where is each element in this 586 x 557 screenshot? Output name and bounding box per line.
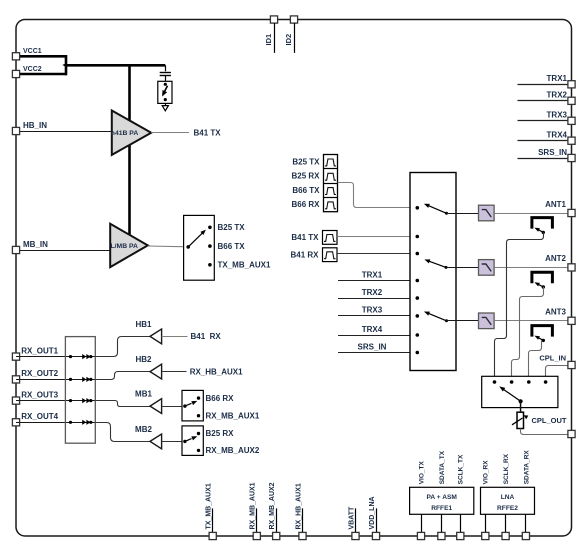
svg-text:SDATA_RX: SDATA_RX bbox=[523, 450, 530, 485]
switch U3 throw 1 bbox=[493, 380, 497, 384]
svg-text:B25 TX: B25 TX bbox=[292, 157, 320, 166]
svg-text:B25 RX: B25 RX bbox=[206, 429, 235, 438]
wire LNA MB1 output bbox=[162, 406, 185, 408]
switch U2 arm ANT2 bbox=[445, 266, 448, 269]
switch U3 throw 4 bbox=[544, 380, 548, 384]
pad ANT1 bbox=[568, 209, 575, 216]
wire VCC join vertical bbox=[65, 55, 68, 75]
switch SW3 throw RX_MB_AUX2 bbox=[197, 449, 200, 452]
wire attenuator to CPL_OUT bbox=[521, 429, 569, 435]
switch U3 throw 3 bbox=[527, 380, 531, 384]
coupler CP3 coupled arrow bbox=[542, 339, 545, 342]
wire PA2 output bbox=[148, 245, 188, 248]
svg-text:VIO_RX: VIO_RX bbox=[483, 460, 490, 485]
pad MB_IN bbox=[12, 246, 19, 253]
wire ID1 stub bbox=[274, 23, 276, 53]
svg-text:ANT1: ANT1 bbox=[545, 200, 566, 209]
svg-text:RX_MB_AUX2: RX_MB_AUX2 bbox=[206, 446, 260, 455]
wire TRX2 stub bbox=[518, 100, 569, 102]
svg-text:RX_MB_AUX2: RX_MB_AUX2 bbox=[269, 482, 276, 529]
wire SDATA_TX pin bbox=[441, 514, 443, 532]
matching elements RX_OUT3 bbox=[69, 399, 72, 402]
svg-text:SDATA_TX: SDATA_TX bbox=[439, 450, 446, 484]
svg-text:VCC2: VCC2 bbox=[23, 66, 42, 73]
wire RX_HB_AUX1 stub bbox=[302, 508, 304, 532]
wire RX_OUT3 bbox=[16, 400, 95, 402]
pad HB_IN bbox=[12, 127, 19, 134]
wire TRX2 to antenna switch bbox=[338, 298, 417, 300]
switch SW1 pole bbox=[186, 245, 190, 249]
wire TRX4 to antenna switch bbox=[338, 335, 417, 337]
switch SW2 MB1 out box bbox=[182, 390, 203, 421]
capacitor C1 bbox=[160, 72, 171, 74]
pad VIO_RX bbox=[482, 532, 489, 539]
svg-text:B66 RX: B66 RX bbox=[291, 200, 320, 209]
wire LNA HB1 output bbox=[162, 336, 188, 338]
switch U2 throw 7 bbox=[416, 333, 420, 337]
svg-text:B25 TX: B25 TX bbox=[218, 223, 246, 232]
svg-text:TRX4: TRX4 bbox=[362, 325, 383, 334]
filter B41 RX bbox=[323, 248, 338, 262]
pad RX_OUT4 bbox=[12, 419, 19, 426]
low-pass filter FL3 bbox=[479, 313, 495, 329]
svg-text:TRX4: TRX4 bbox=[547, 131, 568, 140]
wire VCC between PAs bbox=[128, 144, 131, 236]
switch U2 throw 3 bbox=[416, 252, 420, 256]
pad TRX4 bbox=[568, 137, 575, 144]
svg-text:ID1: ID1 bbox=[264, 34, 273, 46]
switch U2 throw 6 bbox=[416, 314, 420, 318]
filter B41 TX bbox=[323, 231, 338, 245]
switch SW3 MB2 out box bbox=[182, 426, 203, 456]
wire LNA HB2 output bbox=[162, 371, 187, 373]
pad RX_OUT3 bbox=[12, 397, 19, 404]
svg-text:SCLK_TX: SCLK_TX bbox=[458, 454, 465, 484]
pad SCLK_RX bbox=[502, 532, 509, 539]
svg-text:TRX1: TRX1 bbox=[547, 74, 568, 83]
svg-text:RX_MB_AUX1: RX_MB_AUX1 bbox=[206, 411, 260, 420]
svg-text:TX_MB_AUX1: TX_MB_AUX1 bbox=[206, 483, 213, 529]
wire TRX3 stub bbox=[518, 120, 569, 122]
wire coupler CP1 to coupler switch bbox=[495, 232, 544, 382]
wire RX_OUT1 bbox=[16, 356, 95, 358]
wire VDD_LNA stub bbox=[376, 508, 378, 532]
arrow on VCC bus bbox=[62, 63, 67, 67]
attenuator R1 bbox=[517, 412, 524, 428]
pad RX_OUT2 bbox=[12, 376, 19, 383]
switch U3 pole and arm bbox=[519, 399, 523, 403]
switch U2 throw 5 bbox=[416, 296, 420, 300]
pad ANT3 bbox=[568, 317, 575, 324]
svg-text:RX_MB_AUX1: RX_MB_AUX1 bbox=[250, 482, 257, 529]
pad TRX1 bbox=[568, 81, 575, 88]
switch SW1 throw B25 TX bbox=[208, 226, 212, 230]
wire ID2 stub bbox=[294, 23, 296, 53]
pad VCC2 bbox=[12, 70, 19, 77]
pad ID1 bbox=[270, 16, 277, 23]
coupler CP1 main line bbox=[532, 218, 553, 229]
low-pass filter FL2 bbox=[479, 260, 495, 276]
svg-text:B25 RX: B25 RX bbox=[291, 172, 320, 181]
svg-text:RFFE2: RFFE2 bbox=[497, 505, 518, 512]
op-amp LNA HB2 bbox=[150, 364, 162, 379]
op-amp PA1 n41B PA bbox=[112, 111, 151, 155]
svg-text:HB_IN: HB_IN bbox=[23, 121, 47, 130]
switch U2 throw 4 bbox=[416, 279, 420, 283]
svg-text:RX_OUT1: RX_OUT1 bbox=[21, 346, 58, 355]
switch U2 antenna switch box bbox=[410, 173, 456, 371]
pad TRX3 bbox=[568, 117, 575, 124]
wire RX_OUT2 bbox=[16, 379, 95, 381]
svg-text:ANT2: ANT2 bbox=[545, 254, 566, 263]
wire MB_IN bbox=[16, 250, 110, 252]
pad SDATA_TX bbox=[438, 532, 445, 539]
wire HB_IN bbox=[16, 131, 112, 133]
svg-text:TRX2: TRX2 bbox=[362, 288, 383, 297]
matching elements RX_OUT2 bbox=[69, 378, 72, 381]
svg-text:VBATT: VBATT bbox=[348, 506, 355, 530]
svg-text:B41 RX: B41 RX bbox=[191, 332, 222, 341]
op-amp PA2 L/MB PA bbox=[110, 224, 148, 267]
wire VCC bus horizontal bbox=[65, 64, 166, 67]
switch SW2 throw RX_MB_AUX1 bbox=[197, 414, 200, 417]
switch U2 throw 1 bbox=[416, 206, 420, 210]
svg-text:RX_HB_AUX1: RX_HB_AUX1 bbox=[190, 367, 243, 376]
svg-text:SRS_IN: SRS_IN bbox=[538, 148, 567, 157]
switch U2 throw 2 bbox=[416, 235, 420, 239]
wire VIO_RX pin bbox=[485, 514, 487, 532]
wire VBATT stub bbox=[355, 508, 357, 532]
svg-text:VCC1: VCC1 bbox=[23, 48, 42, 55]
svg-text:RX_OUT4: RX_OUT4 bbox=[21, 412, 58, 421]
wire LPF1 to ANT1 pad bbox=[494, 213, 568, 215]
pad RX_HB_AUX1 bbox=[299, 532, 306, 539]
wire LPF2 to ANT2 pad bbox=[494, 267, 568, 269]
wire CPL_IN to coupler switch bbox=[546, 366, 569, 383]
svg-text:B66 RX: B66 RX bbox=[206, 394, 235, 403]
svg-text:MB_IN: MB_IN bbox=[23, 240, 48, 249]
ground arrow bbox=[165, 103, 167, 105]
pad SDATA_RX bbox=[522, 532, 529, 539]
svg-text:SCLK_RX: SCLK_RX bbox=[503, 453, 510, 484]
wire coupler CP2 to coupler switch bbox=[512, 287, 544, 382]
wire SRS_IN stub bbox=[518, 158, 569, 160]
wire coupler CP3 to coupler switch bbox=[529, 340, 542, 382]
pad ID2 bbox=[290, 16, 297, 23]
switch SW1 throw B66 TX bbox=[208, 244, 212, 248]
svg-text:TX_MB_AUX1: TX_MB_AUX1 bbox=[218, 261, 271, 270]
svg-text:CPL_IN: CPL_IN bbox=[539, 354, 566, 363]
coupler CP2 main line bbox=[532, 272, 553, 283]
svg-text:B41 TX: B41 TX bbox=[194, 128, 222, 137]
svg-text:TRX2: TRX2 bbox=[547, 91, 568, 100]
filter bank B25/B66 bbox=[324, 155, 338, 212]
switch SW3 throw B25 RX bbox=[197, 432, 200, 435]
wire switch to LPF1 bbox=[447, 213, 479, 215]
wire SRS_IN to antenna switch bbox=[338, 352, 417, 354]
pad SCLK_TX bbox=[457, 532, 464, 539]
svg-text:VDD_LNA: VDD_LNA bbox=[369, 496, 376, 529]
pad VIO_TX bbox=[417, 532, 424, 539]
coupler CP3 main line bbox=[532, 326, 553, 337]
wire TRX3 to antenna switch bbox=[338, 315, 417, 317]
wire LPF3 to ANT3 pad bbox=[494, 320, 568, 322]
wire TRX4 stub bbox=[518, 140, 569, 142]
svg-text:TRX3: TRX3 bbox=[547, 111, 568, 120]
wire TX_MB_AUX1 stub bbox=[212, 508, 214, 532]
svg-text:B66 TX: B66 TX bbox=[218, 242, 246, 251]
switch U3 coupler select box bbox=[482, 376, 558, 407]
svg-text:RX_OUT3: RX_OUT3 bbox=[21, 390, 58, 399]
svg-text:RX_OUT2: RX_OUT2 bbox=[21, 369, 58, 378]
pad VCC1 bbox=[12, 53, 19, 60]
pad RX_MB_AUX1 bbox=[253, 532, 260, 539]
wire SDATA_RX pin bbox=[525, 514, 527, 532]
svg-text:HB1: HB1 bbox=[135, 320, 152, 329]
wire B41 TX filter to switch bbox=[337, 236, 417, 238]
pad ANT2 bbox=[568, 264, 575, 271]
svg-text:CPL_OUT: CPL_OUT bbox=[531, 416, 566, 425]
wire LNA MB2 output bbox=[162, 441, 185, 443]
switch SW1 TX band select box bbox=[184, 215, 215, 280]
pad RX_OUT1 bbox=[12, 353, 19, 360]
svg-text:B41 TX: B41 TX bbox=[291, 233, 319, 242]
op-amp LNA MB2 bbox=[150, 434, 162, 449]
block PA + ASM RFFE1 bbox=[410, 487, 474, 514]
switch SW1 throw TX_MB_AUX1 bbox=[208, 263, 212, 267]
svg-text:HB2: HB2 bbox=[135, 355, 152, 364]
svg-text:TRX1: TRX1 bbox=[362, 270, 383, 279]
block LNA RFFE2 bbox=[481, 487, 535, 514]
low-pass filter FL1 bbox=[479, 205, 495, 221]
wire RX_OUT1 to LNA HB1 bbox=[95, 337, 150, 357]
matching network box bbox=[65, 337, 95, 444]
wire TRX1 stub bbox=[518, 84, 569, 86]
wire SCLK_RX pin bbox=[505, 514, 507, 532]
pad TX_MB_AUX1 bbox=[209, 532, 216, 539]
matching elements RX_OUT1 bbox=[69, 355, 72, 358]
svg-text:MB1: MB1 bbox=[135, 390, 152, 399]
wire B41 TX output bbox=[151, 132, 189, 134]
detector box D1 bbox=[158, 81, 172, 103]
switch U2 arm ANT1 bbox=[445, 212, 448, 215]
svg-text:RX_HB_AUX1: RX_HB_AUX1 bbox=[295, 483, 302, 529]
svg-text:ID2: ID2 bbox=[284, 34, 293, 46]
switch U3 throw 2 bbox=[510, 380, 514, 384]
svg-text:ANT3: ANT3 bbox=[545, 308, 566, 317]
pad CPL_IN bbox=[568, 361, 575, 368]
pad VBATT bbox=[352, 532, 359, 539]
pad TRX2 bbox=[568, 97, 575, 104]
pad RX_MB_AUX2 bbox=[273, 532, 280, 539]
wire switch to attenuator bbox=[520, 401, 522, 412]
svg-text:VIO_TX: VIO_TX bbox=[418, 461, 425, 485]
wire VCC1 feed bbox=[16, 55, 66, 58]
svg-text:SRS_IN: SRS_IN bbox=[358, 342, 387, 351]
wire VCC2 feed bbox=[16, 73, 66, 76]
wire VCC drop to PAs bbox=[128, 65, 131, 121]
svg-text:n41B PA: n41B PA bbox=[111, 130, 139, 137]
wire cap feed bbox=[165, 65, 167, 71]
wire RX_MB_AUX1 stub bbox=[256, 508, 258, 532]
wire RX_OUT4 bbox=[16, 422, 95, 424]
wire B41 RX filter to switch bbox=[337, 253, 417, 255]
switch SW2 throw B66 RX bbox=[197, 396, 200, 399]
wire filter bank to antenna switch bbox=[338, 183, 418, 208]
pad VDD_LNA bbox=[372, 532, 379, 539]
wire switch to LPF3 bbox=[447, 320, 479, 322]
wire SCLK_TX pin bbox=[460, 514, 462, 532]
svg-text:LNA: LNA bbox=[501, 494, 515, 501]
svg-text:PA + ASM: PA + ASM bbox=[427, 494, 458, 501]
matching elements RX_OUT4 bbox=[69, 421, 72, 424]
svg-text:MB2: MB2 bbox=[135, 425, 152, 434]
wire VIO_TX pin bbox=[421, 514, 423, 532]
op-amp LNA HB1 bbox=[150, 329, 162, 344]
wire TRX1 to antenna switch bbox=[338, 280, 417, 282]
wire switch to LPF2 bbox=[446, 267, 479, 269]
wire RX_OUT2 to LNA HB2 bbox=[95, 372, 150, 380]
pad SRS_IN bbox=[568, 154, 575, 161]
wire RX_OUT3 to LNA MB1 bbox=[95, 401, 150, 407]
op-amp LNA MB1 bbox=[150, 399, 162, 414]
switch U2 arm ANT3 bbox=[445, 319, 448, 322]
svg-text:TRX3: TRX3 bbox=[362, 306, 383, 315]
coupler CP1 coupled arrow bbox=[542, 231, 545, 234]
svg-text:B41 RX: B41 RX bbox=[290, 251, 319, 260]
svg-text:B66 TX: B66 TX bbox=[292, 186, 320, 195]
wire RX_OUT4 to LNA MB2 bbox=[95, 423, 150, 442]
svg-text:RFFE1: RFFE1 bbox=[431, 505, 452, 512]
svg-text:L/MB PA: L/MB PA bbox=[111, 243, 139, 250]
switch U2 throw 8 bbox=[416, 351, 420, 355]
wire RX_MB_AUX2 stub bbox=[276, 508, 278, 532]
pad CPL_OUT bbox=[568, 430, 575, 437]
coupler CP2 coupled arrow bbox=[542, 285, 545, 288]
